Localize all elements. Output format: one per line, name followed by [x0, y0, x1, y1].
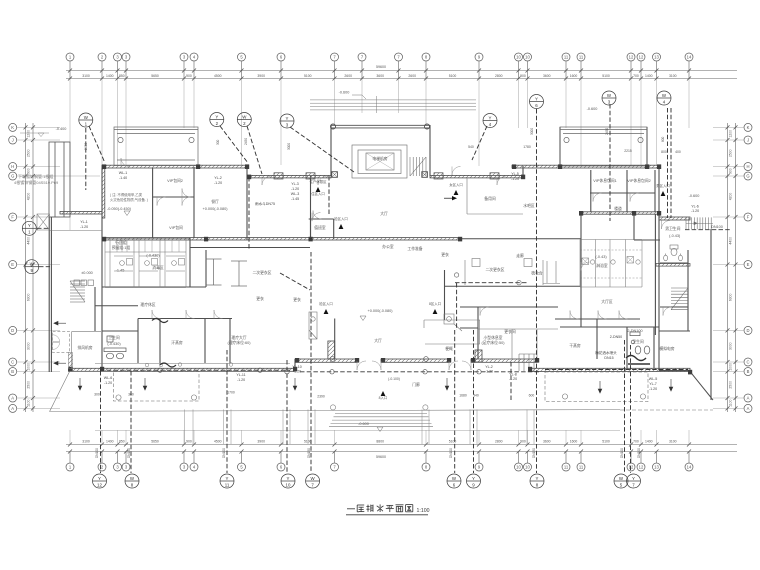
svg-text:59600: 59600: [376, 455, 386, 459]
label: drawing title (vector CJK strokes): [347, 504, 413, 512]
svg-text:1000: 1000: [27, 363, 31, 371]
svg-text:Y: Y: [226, 476, 229, 481]
svg-text:12: 12: [629, 55, 634, 60]
svg-text:1400: 1400: [106, 74, 114, 78]
terrace: pilaster lines below edge: [185, 409, 535, 444]
marker: site level flag top-left: [20, 133, 49, 137]
svg-text:3600: 3600: [543, 440, 551, 444]
node grid: right axis circles: [713, 123, 752, 412]
svg-text:2450: 2450: [244, 138, 248, 145]
svg-text:F: F: [747, 215, 750, 220]
svg-text:1680: 1680: [459, 393, 467, 397]
svg-text:DN15: DN15: [604, 356, 613, 360]
marker: west exit arrows: [54, 321, 66, 365]
pipe: cleanout circles on buried line: [158, 273, 521, 374]
svg-text:男区入口: 男区入口: [656, 183, 670, 188]
svg-text:600: 600: [529, 393, 535, 397]
marker: leisure entry arrow (right-pointing): [452, 196, 457, 200]
svg-text:-1.20: -1.20: [691, 209, 699, 213]
svg-text:1780: 1780: [523, 145, 531, 149]
svg-text:1400: 1400: [106, 440, 114, 444]
svg-text:5100: 5100: [602, 74, 610, 78]
stair: west wing staircase: [70, 281, 85, 302]
svg-text:D: D: [746, 328, 749, 333]
svg-text:-0.050(-0.450): -0.050(-0.450): [107, 207, 132, 211]
riser stack W-5 (bottom): [614, 474, 628, 488]
svg-text:1400: 1400: [645, 74, 653, 78]
svg-text:8800: 8800: [376, 440, 384, 444]
svg-text:二次更衣区: 二次更衣区: [486, 267, 505, 272]
riser stack W-7 (bottom): [306, 474, 320, 488]
svg-text:11: 11: [564, 55, 569, 60]
svg-text:大厅: 大厅: [380, 211, 388, 216]
svg-text:DN150: DN150: [532, 448, 536, 458]
pipe: wall cleanouts at hall south wall: [330, 357, 428, 362]
svg-text:住户休憩区: 住户休憩区: [310, 179, 328, 184]
svg-text:YL-3: YL-3: [291, 182, 299, 186]
svg-text:Y: Y: [215, 114, 218, 119]
svg-text:-1.20: -1.20: [104, 381, 112, 385]
svg-text:汗蒸房: 汗蒸房: [171, 340, 183, 345]
svg-text:Y: Y: [287, 476, 290, 481]
svg-text:3900: 3900: [257, 74, 265, 78]
riser stack Y-7 (bottom): [627, 474, 641, 488]
svg-text:-1.20: -1.20: [237, 378, 245, 382]
svg-text:-0.600: -0.600: [358, 422, 369, 426]
svg-text:2450: 2450: [605, 128, 609, 135]
svg-text:J: J: [12, 138, 14, 143]
svg-text:Y: Y: [535, 96, 538, 101]
svg-text:卫生间: 卫生间: [108, 335, 120, 340]
svg-text:13: 13: [654, 55, 659, 60]
svg-text:-1.45: -1.45: [291, 197, 299, 201]
svg-text:14: 14: [687, 55, 692, 60]
svg-text:走廊: 走廊: [516, 253, 524, 258]
svg-text:300: 300: [216, 139, 220, 145]
label: room names and notes: [56, 91, 723, 427]
svg-text:更衣: 更衣: [293, 297, 301, 302]
svg-text:VIP休息包间2: VIP休息包间2: [627, 178, 650, 183]
svg-text:工作准备: 工作准备: [407, 246, 422, 251]
svg-text:-1.20: -1.20: [80, 225, 88, 229]
svg-text:DN100: DN100: [222, 448, 226, 458]
svg-text:下端镀锌钢管:1根组: 下端镀锌钢管:1根组: [18, 173, 53, 179]
svg-text:1200: 1200: [27, 130, 31, 138]
fixture: west wing sinks: [104, 319, 176, 368]
svg-text:5650: 5650: [151, 74, 159, 78]
svg-text:办公室: 办公室: [382, 244, 394, 249]
svg-text:二次更衣区: 二次更衣区: [253, 270, 272, 275]
svg-text:5650: 5650: [151, 440, 159, 444]
svg-text:4400: 4400: [27, 237, 31, 245]
svg-text:800: 800: [661, 150, 667, 154]
svg-text:2500: 2500: [729, 149, 733, 157]
svg-text:YL-10: YL-10: [292, 365, 302, 369]
svg-text:C: C: [11, 360, 14, 365]
svg-text:850: 850: [119, 440, 125, 444]
svg-text:+0.000(-0.080): +0.000(-0.080): [367, 309, 393, 313]
svg-text:1000: 1000: [729, 363, 733, 371]
room: entrance lobby with elevator core U-lobby: [331, 124, 431, 178]
svg-text:13: 13: [654, 465, 659, 470]
svg-text:男卫生间: 男卫生间: [665, 226, 680, 231]
svg-text:8入口: 8入口: [379, 396, 388, 400]
riser stack Y-1 (left): [22, 221, 36, 235]
svg-text:±0.000: ±0.000: [81, 271, 93, 275]
svg-text:火灾危险性物质,气设备. ): 火灾危险性物质,气设备. ): [110, 197, 148, 202]
wall: principal vertical walls: [49, 125, 711, 400]
svg-text:3600: 3600: [543, 74, 551, 78]
svg-text:DN100: DN100: [620, 448, 624, 458]
svg-text:YL-7: YL-7: [649, 382, 657, 386]
svg-text:H: H: [746, 164, 749, 169]
svg-text:(-0.100): (-0.100): [388, 377, 400, 381]
svg-text:Y: Y: [98, 476, 101, 481]
label: riser size tags (rotated): [95, 448, 641, 458]
svg-text:10: 10: [525, 55, 530, 60]
fixture: reception squares row: [74, 280, 94, 286]
svg-text:1100: 1100: [27, 399, 31, 406]
svg-text:检区入口: 检区入口: [319, 301, 333, 306]
svg-text:卫生间: 卫生间: [632, 339, 644, 344]
terrace: south terrace edge lines: [50, 410, 714, 431]
stair: east side entry steps: [519, 354, 537, 371]
svg-text:2800: 2800: [495, 74, 503, 78]
svg-text:12: 12: [97, 482, 102, 487]
room: spare room east of lobby: [467, 178, 523, 214]
stair: exterior east entry steps: [686, 217, 713, 229]
svg-text:理疗大厅: 理疗大厅: [231, 335, 246, 340]
fixture: south counter with drains (west wing): [95, 363, 290, 367]
svg-text:DN100: DN100: [637, 448, 641, 458]
room: exhaust fan room SW corner: [68, 332, 101, 369]
wire: right dimension lines: [728, 123, 736, 412]
svg-text:11: 11: [579, 465, 584, 470]
svg-text:A: A: [747, 406, 750, 411]
riser stack W-1 (top): [79, 113, 93, 127]
svg-text:900: 900: [186, 74, 192, 78]
svg-text:大厅区: 大厅区: [601, 299, 613, 304]
room: stall upper cell ticks: [117, 238, 179, 252]
label: galvanized pipe note: [14, 173, 59, 185]
riser stack W-3 (top): [602, 91, 616, 105]
svg-text:( 注: 不得使用甲,乙类: ( 注: 不得使用甲,乙类: [110, 192, 143, 197]
svg-text:(-0.43): (-0.43): [669, 234, 681, 238]
svg-text:4200: 4200: [729, 193, 733, 201]
svg-text:WL-6: WL-6: [104, 376, 113, 380]
wall: left site annex (ramp enclosure): [49, 142, 70, 217]
svg-text:模拟电房: 模拟电房: [659, 346, 674, 351]
stair: lobby stair treads: [410, 157, 426, 176]
svg-text:Y: Y: [489, 115, 492, 120]
svg-text:H: H: [11, 164, 14, 169]
svg-text:1600: 1600: [570, 74, 578, 78]
svg-text:Y: Y: [632, 476, 635, 481]
svg-text:11: 11: [564, 465, 569, 470]
svg-text:-1.20: -1.20: [291, 187, 299, 191]
svg-text:(足疗床位:50): (足疗床位:50): [482, 340, 506, 345]
svg-text:J: J: [747, 138, 749, 143]
door: swing arcs: [121, 158, 672, 370]
riser stack Y-8 (bottom): [530, 474, 544, 488]
svg-text:小型休息室: 小型休息室: [484, 335, 503, 340]
svg-text:2500: 2500: [27, 149, 31, 157]
svg-text:Y: Y: [286, 116, 289, 121]
pipe: dashed drainage risers: [37, 104, 730, 473]
riser stack Y-6 (top): [530, 95, 544, 109]
svg-text:1400: 1400: [645, 440, 653, 444]
svg-text:10: 10: [286, 482, 291, 487]
svg-text:540: 540: [468, 145, 474, 149]
riser stack Y-10 (bottom): [281, 474, 295, 488]
svg-text:WL-3: WL-3: [291, 192, 300, 196]
svg-text:1:100: 1:100: [417, 508, 430, 514]
svg-text:理疗休区: 理疗休区: [140, 302, 155, 307]
svg-text:11: 11: [579, 55, 584, 60]
svg-text:VIP包间2: VIP包间2: [167, 178, 183, 183]
room: east hall side room with fixture: [424, 314, 480, 344]
svg-text:VIP包间: VIP包间: [169, 225, 183, 230]
svg-text:900: 900: [520, 74, 526, 78]
wall: chamfered SW corner to terrace: [50, 372, 70, 412]
svg-text:(-0.430): (-0.430): [146, 254, 160, 258]
svg-text:DN100: DN100: [95, 448, 99, 458]
svg-text:WL-5: WL-5: [649, 377, 658, 381]
room: sewage lift closet west of hall: [309, 312, 317, 339]
riser stack W-6 (bottom): [447, 474, 461, 488]
svg-text:300: 300: [128, 393, 134, 397]
svg-text:检区入口: 检区入口: [334, 216, 348, 221]
svg-text:YL-6: YL-6: [691, 205, 699, 209]
wall: mens toilet south wall: [656, 264, 690, 267]
svg-text:YL-8: YL-8: [509, 373, 517, 377]
fixture: urinals: [664, 254, 683, 261]
wire: left dimension lines: [26, 123, 34, 412]
svg-text:59600: 59600: [376, 65, 386, 69]
wall: flank wall pier boxes: [274, 173, 499, 179]
svg-text:-1.45: -1.45: [116, 269, 125, 273]
riser stack W-4 (top): [657, 91, 671, 105]
svg-text:行团组: 行团组: [115, 240, 127, 245]
svg-text:DN100: DN100: [449, 448, 453, 458]
svg-text:6300: 6300: [729, 294, 733, 302]
terrace: SW dashed balcony outline: [53, 332, 70, 353]
svg-text:2-DN100: 2-DN100: [627, 329, 642, 333]
riser stack W-2 (top): [237, 113, 251, 127]
riser stack Y-3 (top): [280, 114, 294, 128]
svg-text:12: 12: [639, 465, 644, 470]
svg-text:-1.40: -1.40: [119, 176, 127, 180]
svg-text:梅花洒水喷头: 梅花洒水喷头: [595, 350, 617, 355]
svg-text:(理疗床位:60): (理疗床位:60): [228, 340, 252, 345]
svg-text:-1.20: -1.20: [485, 370, 493, 374]
svg-text:3100: 3100: [82, 440, 90, 444]
svg-text:12: 12: [639, 55, 644, 60]
svg-text:E: E: [747, 262, 750, 267]
svg-text:3000: 3000: [530, 128, 534, 135]
riser stack W-8 (bottom): [125, 474, 139, 488]
svg-text:5100: 5100: [449, 440, 457, 444]
label: in-plan dimensions: [94, 145, 681, 399]
terrace: east porch dashed outline: [545, 372, 648, 402]
svg-text:Y: Y: [472, 476, 475, 481]
room: disinfection stalls left block: [105, 238, 186, 288]
svg-text:8区入口: 8区入口: [429, 302, 441, 306]
svg-text:800: 800: [661, 136, 665, 142]
svg-text:850: 850: [119, 74, 125, 78]
svg-text:门廊: 门廊: [412, 382, 420, 387]
svg-text:YL-2: YL-2: [214, 176, 222, 180]
canopy: left wing porch roof: [114, 127, 198, 166]
svg-text:4400: 4400: [729, 237, 733, 245]
svg-text:900: 900: [186, 440, 192, 444]
svg-text:K: K: [11, 125, 14, 130]
canopy: right dining roof: [560, 127, 647, 166]
svg-text:3000: 3000: [27, 342, 31, 350]
svg-text:4500: 4500: [214, 74, 222, 78]
svg-text:10: 10: [516, 55, 521, 60]
svg-text:B: B: [11, 369, 14, 374]
svg-text:楼道: 楼道: [614, 206, 622, 211]
svg-text:DN150: DN150: [307, 448, 311, 458]
wire: top dimension lines: [66, 71, 737, 79]
riser stack Y-9 (bottom): [467, 474, 481, 488]
svg-text:400: 400: [675, 150, 681, 154]
svg-text:大厅: 大厅: [374, 338, 382, 343]
svg-text:电梯机房: 电梯机房: [372, 156, 387, 161]
svg-text:12: 12: [629, 465, 634, 470]
svg-text:餐厅: 餐厅: [211, 199, 219, 204]
svg-text:2-DN50: 2-DN50: [610, 335, 622, 339]
svg-text:更衣间: 更衣间: [504, 329, 516, 334]
svg-text:1200: 1200: [729, 130, 733, 138]
wall: junction piers: [69, 164, 693, 374]
svg-text:-1.20: -1.20: [293, 370, 301, 374]
svg-text:消毒区: 消毒区: [152, 265, 164, 270]
svg-text:更衣: 更衣: [441, 252, 449, 257]
riser stack Y-4 (top): [483, 114, 497, 128]
svg-text:3000: 3000: [287, 143, 291, 150]
svg-text:-1.20: -1.20: [511, 177, 519, 181]
svg-text:DN150: DN150: [127, 448, 131, 458]
svg-text:2500: 2500: [729, 381, 733, 389]
node grid: top axis circles: [66, 53, 693, 79]
svg-text:3000: 3000: [729, 342, 733, 350]
svg-text:E: E: [11, 262, 14, 267]
terrace: west porch dashed outline: [114, 372, 200, 402]
svg-text:排风机房: 排风机房: [77, 345, 92, 350]
svg-text:F: F: [11, 215, 14, 220]
svg-text:-0.600: -0.600: [587, 107, 598, 111]
svg-text:10: 10: [516, 465, 521, 470]
svg-text:1100: 1100: [729, 399, 733, 406]
svg-text:YL-5: YL-5: [511, 172, 519, 176]
ramp: accessible entrance ramp: [37, 214, 102, 231]
svg-text:(-0.430): (-0.430): [107, 342, 121, 346]
svg-text:Y: Y: [28, 223, 31, 228]
svg-text:YL-11: YL-11: [236, 373, 245, 377]
svg-text:5100: 5100: [449, 74, 457, 78]
svg-text:WL-1: WL-1: [119, 171, 128, 175]
svg-text:300: 300: [94, 393, 100, 397]
terrace: entrance steps: [329, 405, 433, 427]
svg-text:-1.20: -1.20: [509, 377, 517, 381]
node grid: left axis circles: [9, 123, 100, 412]
svg-text:2500: 2500: [27, 381, 31, 389]
svg-text:2600: 2600: [408, 74, 416, 78]
svg-text:4根镀锌钢管04S519.P69: 4根镀锌钢管04S519.P69: [14, 179, 59, 185]
label: riser offset dims (rotated, top): [84, 128, 665, 150]
wall: chamfered SE corner: [690, 372, 713, 401]
riser stack Y-11 (bottom): [220, 474, 234, 488]
svg-text:900: 900: [520, 440, 526, 444]
node grid: bottom axis circles: [66, 452, 693, 471]
svg-text:梗概: 梗概: [445, 346, 453, 351]
svg-text:-1.20: -1.20: [214, 181, 222, 185]
svg-text:2390: 2390: [317, 395, 325, 399]
marker: level triangle below -0.050: [124, 211, 130, 216]
svg-text:900: 900: [729, 168, 733, 174]
svg-text:2215: 2215: [624, 149, 632, 153]
svg-text:值班室: 值班室: [314, 225, 326, 230]
svg-text:女区入口: 女区入口: [449, 182, 463, 187]
svg-text:340: 340: [473, 393, 479, 397]
svg-text:A: A: [747, 396, 750, 401]
svg-text:水吧区: 水吧区: [523, 203, 535, 208]
marker: roof elevation flag: [352, 95, 366, 99]
svg-text:2600: 2600: [344, 74, 352, 78]
svg-text:3600: 3600: [376, 74, 384, 78]
svg-text:-1.20: -1.20: [649, 387, 657, 391]
room: shower stalls right block: [580, 240, 642, 288]
svg-text:梳妆台: 梳妆台: [531, 271, 543, 276]
svg-text:3100: 3100: [669, 440, 677, 444]
svg-text:1600: 1600: [570, 440, 578, 444]
svg-text:10: 10: [525, 465, 530, 470]
svg-text:YL-1: YL-1: [80, 220, 88, 224]
svg-text:5100: 5100: [304, 74, 312, 78]
wire: bottom grid stubs: [70, 430, 689, 445]
svg-text:-0.400: -0.400: [56, 127, 67, 131]
wire: top grid stubs into plan: [70, 79, 689, 230]
label: fire-use note: [110, 192, 148, 202]
room: locker partitions right-centre: [465, 259, 560, 360]
fixture: WC and trap fittings east toilet: [626, 332, 650, 364]
label: pipe tags: [80, 171, 699, 391]
svg-text:3100: 3100: [669, 74, 677, 78]
marker: entrance arrows: [316, 187, 666, 396]
svg-text:备用间: 备用间: [484, 196, 496, 201]
canopy: upper roof outline above lobby: [310, 96, 476, 113]
svg-text:-0.600: -0.600: [689, 194, 700, 198]
svg-text:Y: Y: [536, 476, 539, 481]
svg-text:雨水斗DN75: 雨水斗DN75: [255, 201, 275, 206]
wire: bottom dimension lines: [66, 445, 737, 452]
riser stack Y-2 (top): [210, 113, 224, 127]
svg-text:DN100: DN100: [711, 225, 723, 229]
svg-text:5100: 5100: [602, 440, 610, 444]
svg-text:YL-2: YL-2: [485, 365, 493, 369]
svg-text:700: 700: [633, 440, 639, 444]
svg-text:淋浴室: 淋浴室: [596, 263, 608, 268]
svg-text:预留组:1组: 预留组:1组: [112, 245, 131, 250]
door: SW double swing doors: [53, 335, 60, 350]
svg-text:11: 11: [225, 482, 230, 487]
wall: principal horizontal walls: [95, 193, 690, 371]
svg-text:+0.000(-0.080): +0.000(-0.080): [202, 207, 228, 211]
svg-text:G: G: [746, 174, 749, 179]
svg-text:干蒸房: 干蒸房: [569, 343, 581, 348]
